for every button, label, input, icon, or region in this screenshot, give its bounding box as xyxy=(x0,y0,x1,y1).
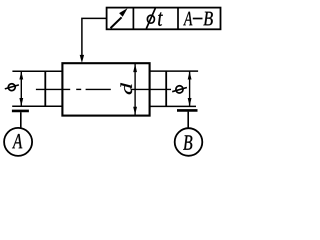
datum A letter xyxy=(12,134,22,148)
tolerance value φt xyxy=(146,8,163,28)
datum reference A–B xyxy=(183,12,213,26)
datum B circle xyxy=(175,128,203,156)
big cylinder xyxy=(62,63,149,115)
label φ (left, rotated) xyxy=(5,83,19,92)
frame divider 2 xyxy=(177,8,179,30)
datum B symbol bar xyxy=(177,109,198,112)
d dimension line xyxy=(133,64,137,115)
right extension/edge line top xyxy=(150,70,199,72)
datum A symbol bar xyxy=(12,110,29,113)
center line xyxy=(36,88,171,90)
left extension/edge line top xyxy=(12,70,62,72)
right extension/edge line bottom xyxy=(150,105,196,107)
label φ (right, rotated) xyxy=(172,85,187,94)
circular runout symbol xyxy=(111,8,128,28)
datum A circle xyxy=(4,128,32,156)
label d (rotated) xyxy=(121,83,132,94)
datum A leader xyxy=(20,112,22,128)
right journal end face xyxy=(165,71,167,106)
datum B letter xyxy=(183,135,192,149)
datum B leader xyxy=(187,112,189,129)
left φ dimension line xyxy=(19,71,23,106)
left extension/edge line bottom xyxy=(12,105,62,107)
frame divider 1 xyxy=(132,8,134,30)
leader from frame to shaft xyxy=(82,18,107,57)
left journal end face xyxy=(44,71,46,106)
leader arrowhead xyxy=(80,55,84,63)
feature control frame xyxy=(107,8,221,30)
right φ dimension line xyxy=(188,71,192,106)
